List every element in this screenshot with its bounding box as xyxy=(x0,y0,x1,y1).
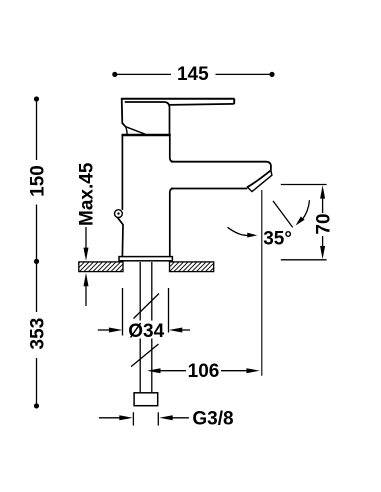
lever blade right end cap xyxy=(233,99,235,105)
body side knob circle xyxy=(115,210,123,218)
svg-text:Max.45: Max.45 xyxy=(77,162,98,226)
svg-text:145: 145 xyxy=(177,64,209,85)
svg-text:106: 106 xyxy=(188,361,220,382)
deck left hatched section xyxy=(79,262,123,272)
lever blade underside right of body xyxy=(170,104,234,105)
body top thick line xyxy=(122,134,171,136)
diameter 34 left arrow line xyxy=(98,329,110,331)
svg-text:35°: 35° xyxy=(263,229,292,250)
diameter 34 right arrowhead xyxy=(169,328,183,333)
deck right hatched section xyxy=(170,262,214,272)
dimension 70 bottom arrowhead xyxy=(320,246,325,259)
left dimension line lower segment xyxy=(36,261,38,406)
Max.45 up arrowhead xyxy=(84,273,89,286)
aerator collar band xyxy=(248,170,272,191)
svg-text:70: 70 xyxy=(313,213,334,234)
body right edge below spout xyxy=(170,189,174,257)
diameter 34 right arrow line xyxy=(181,329,190,331)
dimension 70 vertical line xyxy=(322,196,324,248)
35 degree right arc arrow xyxy=(302,200,310,220)
spout tip face curve xyxy=(247,170,271,187)
body left edge upper segment xyxy=(121,136,123,210)
body right edge above spout xyxy=(170,136,174,162)
left dimension top dot xyxy=(34,96,39,101)
svg-text:G3/8: G3/8 xyxy=(192,408,233,429)
dimension 70 top arrowhead xyxy=(320,185,325,198)
dimension 145 line right segment xyxy=(216,73,273,75)
dimension 145 left dot xyxy=(112,72,117,77)
diameter 34 left extension line xyxy=(122,288,124,336)
left dimension middle dot xyxy=(34,259,39,264)
spout top and nose xyxy=(171,162,271,171)
dimension 145 line left segment xyxy=(115,73,172,75)
diameter 34 left arrowhead xyxy=(109,328,123,333)
svg-text:Ø34: Ø34 xyxy=(128,321,164,342)
body side knob dot xyxy=(117,212,119,214)
handle body left edge xyxy=(122,98,126,127)
dimension 70 bottom tick xyxy=(281,259,327,261)
diameter 34 label background xyxy=(127,321,166,339)
35 degree left arc arrowhead xyxy=(247,233,257,238)
left dimension bottom dot xyxy=(34,403,39,408)
dimension 106 right arrow line xyxy=(221,370,248,372)
G3/8 left arrow line xyxy=(99,417,121,419)
G3/8 left tick xyxy=(132,412,134,425)
diameter 34 right extension line xyxy=(168,288,170,333)
pipe break slash lower xyxy=(131,344,158,367)
handle front wedge diagonal xyxy=(126,127,146,135)
dimension 106 left arrow line xyxy=(159,370,186,372)
G3/8 right arrow line xyxy=(172,417,189,419)
supply pipe left line xyxy=(139,262,141,392)
dimension 70 top tick xyxy=(281,184,327,186)
35 degree left arc arrow xyxy=(228,227,250,235)
G3/8 right arrowhead xyxy=(159,415,173,420)
svg-text:353: 353 xyxy=(27,318,48,350)
body left edge lower connector xyxy=(117,217,123,256)
35 degree leg line xyxy=(273,201,293,228)
G3/8 right tick xyxy=(157,412,159,425)
supply pipe right line xyxy=(151,262,153,392)
35 degree right arc arrowhead xyxy=(296,217,305,226)
dimension 106 left arrowhead xyxy=(147,368,161,373)
svg-text:150: 150 xyxy=(27,165,48,197)
handle front wedge arc xyxy=(126,127,128,135)
dimension 145 right dot xyxy=(269,72,274,77)
G3/8 left arrowhead xyxy=(119,415,133,420)
G3/8 end fitting xyxy=(134,393,158,406)
Max.45 down arrow line xyxy=(85,227,87,249)
cartridge cap inner line with rounded right corner xyxy=(125,102,170,134)
left dimension line upper segment xyxy=(36,99,38,261)
Max.45 down arrowhead xyxy=(84,248,89,261)
Max.45 up arrow line xyxy=(85,284,87,306)
water stream reference line xyxy=(261,190,263,376)
spout underside xyxy=(171,188,247,190)
pipe break slash upper xyxy=(134,294,160,319)
dimension 106 right arrowhead xyxy=(246,368,260,373)
faucet lever handle top blade xyxy=(122,98,235,100)
base flange xyxy=(119,257,172,261)
